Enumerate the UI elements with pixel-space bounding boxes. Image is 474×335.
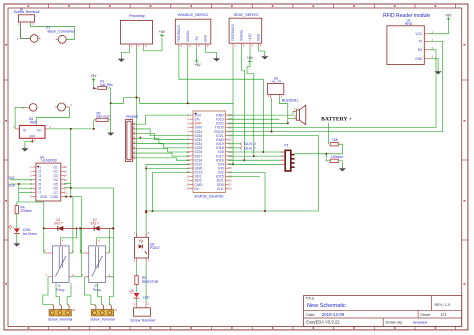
svg-text:TX: TX bbox=[418, 40, 423, 44]
svg-text:6A2-T: 6A2-T bbox=[54, 221, 63, 225]
svg-text:220ohm: 220ohm bbox=[20, 209, 32, 213]
svg-text:J7: J7 bbox=[114, 308, 118, 312]
svg-text:amaraxr: amaraxr bbox=[413, 319, 428, 324]
svg-text:FEEDBACK: FEEDBACK bbox=[177, 24, 181, 42]
svg-text:SIGNAL: SIGNAL bbox=[240, 29, 244, 41]
svg-text:led Green: led Green bbox=[23, 232, 37, 236]
svg-text:VCC: VCC bbox=[415, 32, 423, 36]
svg-text:+5V: +5V bbox=[159, 30, 166, 34]
svg-text:19: 19 bbox=[187, 187, 191, 191]
svg-text:Screw Terminal: Screw Terminal bbox=[130, 318, 155, 322]
svg-text:Screw_Terminal: Screw_Terminal bbox=[48, 317, 72, 321]
svg-text:100ohm: 100ohm bbox=[331, 155, 343, 159]
svg-text:VI: VI bbox=[23, 128, 26, 132]
svg-text:RESISTOR: RESISTOR bbox=[142, 280, 159, 284]
svg-text:J9: J9 bbox=[19, 8, 23, 12]
svg-text:7805: 7805 bbox=[29, 121, 37, 125]
svg-text:New Schematic: New Schematic bbox=[307, 303, 346, 309]
svg-text:ULN_7: ULN_7 bbox=[245, 146, 256, 150]
svg-text:HANDLE_SERVO: HANDLE_SERVO bbox=[178, 13, 209, 17]
svg-text:COM: COM bbox=[50, 195, 58, 199]
svg-text:GND: GND bbox=[257, 33, 261, 41]
svg-text:HL_T8: HL_T8 bbox=[272, 80, 281, 84]
svg-text:fuel_Res: fuel_Res bbox=[100, 83, 113, 87]
svg-text:+5V: +5V bbox=[90, 74, 97, 78]
svg-text:5V: 5V bbox=[195, 187, 200, 191]
svg-text:+12V: +12V bbox=[248, 33, 252, 41]
svg-text:GND: GND bbox=[40, 195, 48, 199]
svg-text:20: 20 bbox=[229, 187, 233, 191]
svg-text:Proximity: Proximity bbox=[129, 14, 145, 18]
svg-text:+5V: +5V bbox=[247, 56, 254, 60]
svg-text:FEEDBACK: FEEDBACK bbox=[231, 23, 235, 41]
svg-text:2018-12-09: 2018-12-09 bbox=[322, 312, 345, 317]
svg-text:TITLE:: TITLE: bbox=[306, 297, 316, 301]
svg-text:GND: GND bbox=[415, 57, 423, 61]
svg-text:PC817: PC817 bbox=[150, 246, 160, 250]
svg-text:1/1: 1/1 bbox=[441, 312, 447, 317]
svg-text:ESP32_DevKitC: ESP32_DevKitC bbox=[194, 194, 223, 199]
svg-text:REV: 1.0: REV: 1.0 bbox=[435, 302, 452, 307]
svg-text:Screw_Terminal: Screw_Terminal bbox=[90, 317, 114, 321]
svg-text:VO: VO bbox=[37, 128, 42, 132]
svg-text:+5V: +5V bbox=[445, 13, 452, 17]
svg-text:Screw Terminal: Screw Terminal bbox=[14, 10, 40, 14]
svg-text:SIGNAL: SIGNAL bbox=[186, 30, 190, 42]
svg-text:Drawn By:: Drawn By: bbox=[386, 320, 404, 324]
svg-text:+5V: +5V bbox=[195, 63, 202, 67]
svg-text:BATTERY +: BATTERY + bbox=[321, 117, 352, 123]
svg-text:EasyEDA V5.9.22: EasyEDA V5.9.22 bbox=[306, 320, 340, 325]
svg-text:SEAT_SERVO: SEAT_SERVO bbox=[234, 13, 259, 17]
svg-text:J6: J6 bbox=[72, 308, 76, 312]
svg-text:GND: GND bbox=[204, 34, 208, 42]
svg-text:Relay: Relay bbox=[93, 288, 102, 292]
svg-text:U4: U4 bbox=[40, 156, 44, 160]
svg-text:Date:: Date: bbox=[306, 313, 315, 317]
svg-text:RX: RX bbox=[418, 48, 423, 52]
svg-text:Relay: Relay bbox=[56, 288, 65, 292]
svg-text:+5V: +5V bbox=[195, 35, 199, 42]
svg-text:keypad: keypad bbox=[126, 115, 138, 119]
svg-text:10K: 10K bbox=[332, 138, 339, 142]
svg-text:Buck_Converter: Buck_Converter bbox=[48, 30, 76, 34]
svg-text:CLK: CLK bbox=[217, 187, 225, 191]
svg-text:BUZZER1: BUZZER1 bbox=[282, 99, 298, 103]
svg-text:6A2-T: 6A2-T bbox=[91, 221, 100, 225]
svg-text:P1: P1 bbox=[284, 143, 288, 147]
svg-text:Sheet:: Sheet: bbox=[420, 313, 431, 317]
